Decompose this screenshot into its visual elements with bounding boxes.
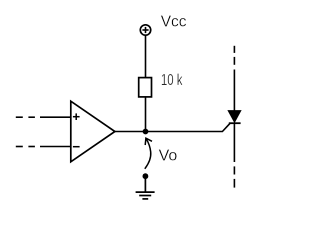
wire output to gate [115, 124, 230, 132]
Vo measurement arrow [145, 138, 152, 169]
wire thyristor anode (dashed continuation) [233, 46, 235, 111]
wire R1 to output node [145, 97, 147, 132]
ground [136, 176, 155, 199]
ground node dot [143, 173, 149, 179]
Vcc terminal [140, 25, 150, 35]
minus input label [73, 146, 80, 148]
plus input label [73, 113, 80, 120]
svg-text:Vcc: Vcc [161, 14, 187, 31]
op-amp comparator U1 [71, 101, 115, 162]
wire non-inverting input (dashed continuation) [16, 116, 71, 118]
thyristor SCR [228, 111, 241, 124]
svg-text:Vo: Vo [159, 147, 178, 164]
svg-text:10 k: 10 k [161, 72, 183, 89]
wire thyristor cathode (dashed continuation) [233, 123, 235, 187]
wire inverting input (dashed continuation) [16, 146, 71, 148]
node output junction [143, 129, 149, 135]
resistor R1 10 k [139, 78, 152, 97]
wire Vcc to R1 [145, 35, 147, 78]
